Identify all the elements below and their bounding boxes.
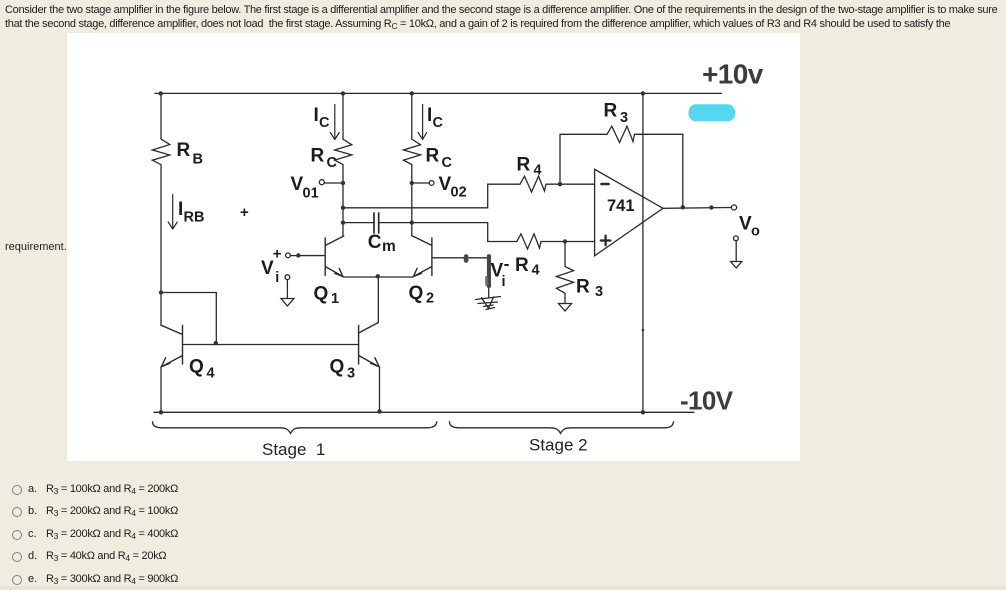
svg-text:Q: Q (330, 357, 345, 378)
bold tick on Q2 base wire (464, 254, 469, 263)
node mark on supply line (642, 329, 645, 332)
svg-text:3: 3 (620, 110, 628, 126)
ground R3 (559, 304, 572, 312)
Vi- ground scribble (476, 297, 501, 310)
junction Cm left (341, 220, 345, 224)
current arrow IC right (418, 105, 427, 140)
junction RC left top rail (341, 91, 345, 95)
resistor RB (152, 93, 170, 292)
highlight marker (689, 104, 736, 121)
V01 circle (319, 180, 324, 185)
svg-text:C: C (327, 155, 338, 171)
+10V top rail (155, 92, 721, 94)
resistor RC right (403, 93, 420, 236)
op-amp minus sign (602, 183, 609, 186)
junction RC right top rail (410, 91, 414, 95)
junction inverting input node (558, 182, 562, 186)
svg-text:-10V: -10V (680, 386, 734, 416)
svg-text:1: 1 (331, 291, 339, 307)
svg-text:C: C (368, 232, 382, 253)
Vo circle (734, 236, 739, 241)
Vi+ ground lead (286, 280, 288, 299)
transistor Q2 (413, 236, 489, 277)
junction emitter bus node (376, 274, 380, 278)
wire R4 to op-amp plus input (565, 241, 595, 243)
figure panel (67, 33, 800, 461)
capacitor Cm (374, 213, 379, 233)
svg-text:4: 4 (207, 366, 215, 382)
svg-text:+10v: +10v (702, 59, 764, 90)
transistor Q4 (161, 325, 183, 367)
wire V02 to R4 bottom (412, 223, 517, 242)
svg-text:C: C (442, 155, 453, 171)
wire R4 to op-amp minus input (560, 183, 595, 185)
-10V bottom rail (154, 411, 694, 413)
svg-text:R: R (426, 146, 440, 167)
junction Q4 emitter rail (159, 410, 163, 414)
svg-text:I: I (427, 105, 432, 126)
mirror base bus (183, 344, 359, 346)
ground Vo (731, 262, 742, 269)
transistor Q1 (299, 236, 344, 277)
svg-text:02: 02 (451, 185, 467, 201)
Q3 emitter wire (379, 367, 381, 412)
Vo ground lead (735, 241, 737, 262)
capacitor Cm right wire (380, 222, 412, 224)
resistor R4 top (520, 176, 560, 192)
wire R3 to output (682, 134, 684, 207)
junction RB branch (159, 290, 163, 294)
svg-text:o: o (751, 224, 760, 240)
junction RB top rail (159, 91, 163, 95)
svg-text:4: 4 (534, 163, 542, 179)
junction V01 tap wire (341, 206, 345, 210)
junction Cm right (410, 220, 414, 224)
svg-text:m: m (382, 238, 396, 255)
Vi+ wire (290, 255, 299, 257)
svg-text:R: R (576, 277, 590, 298)
svg-text:R: R (311, 146, 325, 167)
junction feedback output node (681, 205, 685, 209)
junction mirror base bus (214, 341, 218, 345)
Vi- ground lead (488, 286, 490, 298)
node V01 wire (324, 182, 343, 184)
svg-text:-: - (504, 255, 510, 274)
junction output wire (709, 205, 713, 209)
svg-text:Q: Q (409, 283, 424, 304)
op-amp U1 (595, 169, 663, 256)
current arrow IC left (330, 105, 339, 140)
svg-text:Q: Q (189, 357, 204, 378)
svg-text:2: 2 (426, 291, 434, 307)
junction supply line bottom rail (641, 410, 645, 414)
resistor R3 top (607, 126, 683, 142)
svg-text:i: i (502, 274, 506, 290)
svg-text:Q: Q (314, 284, 329, 305)
output wire (663, 207, 731, 210)
current arrow IRB (168, 195, 177, 230)
brace Stage 2 (450, 422, 674, 434)
emitter bus Q1 Q2 (344, 276, 413, 278)
junction Q3 emitter rail (377, 409, 381, 413)
svg-text:R: R (604, 101, 618, 122)
op-amp plus sign (601, 236, 611, 246)
junction Vi+ input (296, 253, 300, 257)
svg-text:Stage 2: Stage 2 (529, 436, 588, 455)
svg-text:C: C (433, 115, 444, 131)
output circle (731, 205, 736, 210)
supply line through stage 2 (642, 93, 644, 412)
svg-text:3: 3 (595, 284, 603, 300)
V02 circle (429, 181, 434, 186)
svg-text:01: 01 (303, 186, 319, 202)
svg-text:Stage 1: Stage 1 (262, 440, 325, 459)
svg-text:R: R (517, 155, 531, 176)
transistor Q3 (359, 323, 380, 368)
wire RB to Q4 collector (160, 293, 162, 326)
resistor R4 bottom (517, 234, 565, 249)
svg-text:+: + (273, 246, 282, 263)
svg-text:4: 4 (532, 263, 540, 279)
wire RB to mirror base bus (161, 293, 216, 345)
svg-text:i: i (275, 270, 279, 286)
svg-text:3: 3 (347, 366, 355, 382)
svg-text:RB: RB (184, 210, 205, 226)
resistor RC left (335, 93, 352, 236)
Vi- overlap mark (485, 276, 488, 286)
tail wire to Q3 (377, 277, 379, 323)
svg-text:C: C (319, 115, 330, 131)
junction noninverting input node (563, 239, 567, 243)
capacitor Cm left wire (343, 222, 373, 224)
wire V01 to R4 top (343, 184, 520, 208)
svg-text:R: R (177, 140, 191, 161)
feedback wire to R3 top (560, 134, 607, 184)
svg-text:R: R (515, 255, 529, 276)
junction node V01 (341, 181, 345, 185)
Vi+ lower circle (285, 275, 290, 280)
brace Stage 1 (153, 422, 437, 434)
node V02 wire (412, 182, 429, 184)
ground Vi+ (281, 299, 294, 307)
Vi+ input circle (286, 253, 291, 258)
svg-text:+: + (240, 204, 249, 221)
Vi- bold input bar (487, 254, 491, 287)
options (0, 482, 1, 484)
svg-text:B: B (193, 152, 203, 168)
svg-text:I: I (178, 199, 183, 220)
junction node V02 (410, 181, 414, 185)
junction supply line top rail (641, 91, 645, 95)
svg-text:741: 741 (607, 197, 635, 215)
svg-text:I: I (314, 105, 319, 126)
resistor R3 bottom (556, 242, 573, 304)
Q4 emitter wire (160, 367, 162, 412)
